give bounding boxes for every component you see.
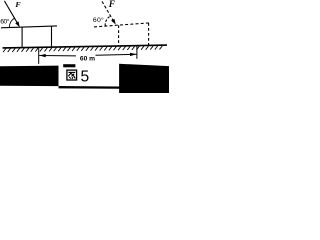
dimension arrow left [39, 54, 46, 57]
svg-text:F: F [108, 0, 115, 9]
arrowhead left force [15, 21, 20, 27]
angle arc right dashed [105, 17, 109, 26]
svg-text:60 m: 60 m [80, 55, 95, 62]
dashed block right: right edge [148, 23, 150, 46]
black band left [0, 66, 59, 87]
black band right [119, 64, 169, 93]
dimension tick right [136, 46, 138, 59]
dashed block right: left edge [118, 25, 120, 46]
dimension tick left [38, 48, 40, 64]
force F left line [4, 1, 18, 24]
dimension arrow right [130, 53, 137, 56]
caption box bottom border [59, 86, 121, 89]
caption box top border remnant [63, 64, 75, 67]
ground hatching [3, 46, 162, 52]
dimension line right segment [96, 53, 137, 56]
glyph: Chinese character tu (figure) [67, 70, 77, 80]
dashed surface line right [94, 23, 149, 27]
ground [3, 45, 168, 48]
svg-text:F: F [15, 0, 21, 9]
svg-text:60°: 60° [0, 18, 9, 26]
svg-text:60°: 60° [93, 16, 104, 24]
dimension line left segment [39, 55, 76, 57]
left block: right edge [51, 26, 53, 47]
wire: surface line of left block top [1, 26, 57, 28]
arrowhead right force [111, 19, 116, 25]
angle arc left [9, 18, 15, 27]
left block: left edge [21, 27, 23, 47]
force F right dashed line [102, 1, 113, 20]
svg-text:5: 5 [81, 69, 90, 86]
